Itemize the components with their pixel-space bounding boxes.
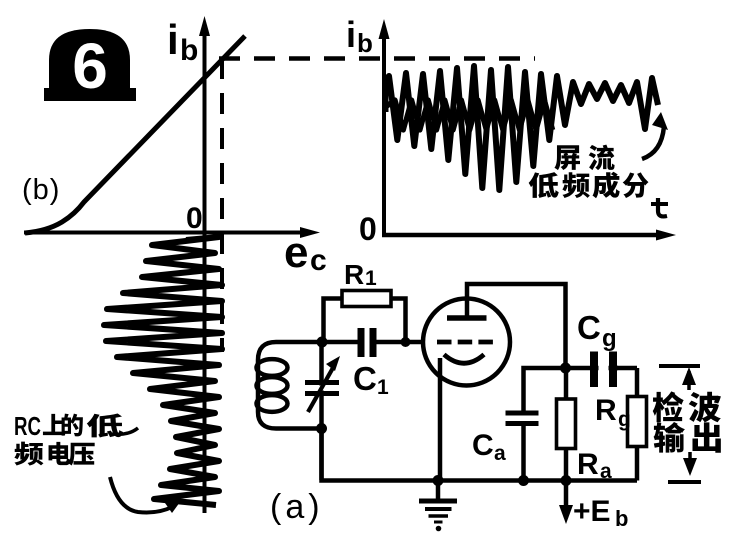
capacitor C1 plates: [361, 326, 373, 360]
svg-text:+E: +E: [573, 495, 611, 528]
label i_b (plot b): [167, 16, 198, 67]
svg-text:R: R: [344, 259, 364, 290]
svg-text:R: R: [577, 448, 599, 481]
resistor Rg: [628, 368, 647, 481]
node: Ca bottom dot: [518, 475, 529, 486]
output annotation 检波输出: [659, 366, 700, 390]
label e_c: [284, 228, 327, 277]
label i_b (time plot): [346, 14, 373, 58]
label +Eb: [573, 495, 628, 531]
node: grid junction dot: [401, 337, 411, 347]
svg-text:g: g: [618, 408, 631, 431]
label (a): [270, 488, 324, 526]
svg-text:b: b: [615, 506, 628, 531]
label 0 (time plot): [359, 211, 377, 247]
variable capacitor plates: [303, 356, 341, 412]
node: Ra bottom dot: [561, 475, 572, 486]
label (b): [22, 174, 60, 206]
node: cathode/ground dot: [433, 475, 444, 486]
tube cathode: [444, 355, 484, 364]
svg-text:b: b: [180, 34, 198, 67]
plot (b) vertical axis i_b: [199, 16, 210, 513]
node: tank top junction dot: [317, 337, 328, 348]
plot time-domain vertical axis i_b: [379, 19, 390, 237]
tube grid (dashed): [437, 340, 495, 345]
svg-text:C: C: [353, 360, 377, 397]
label Ca: [472, 429, 506, 465]
label 0 (plot b): [186, 202, 203, 235]
label Rg: [595, 394, 631, 431]
svg-text:C: C: [577, 309, 601, 346]
svg-text:e: e: [284, 228, 308, 277]
svg-text:1: 1: [365, 267, 377, 290]
wire: cathode down to ground rail: [438, 358, 443, 480]
svg-text:b: b: [357, 28, 373, 58]
resistor Ra: [557, 368, 576, 481]
svg-text:0: 0: [186, 202, 203, 235]
tube characteristic curve: [25, 36, 245, 233]
resistor R1 branch wires: [324, 299, 406, 343]
label C1: [353, 360, 389, 399]
wire: grid row from tank to tube: [321, 340, 437, 345]
svg-text:6: 6: [72, 30, 108, 102]
svg-text:(a): (a): [270, 488, 324, 526]
label R1: [344, 259, 377, 290]
label 屏流低频成分: [529, 145, 649, 199]
curved arrow to waveform: [110, 477, 180, 513]
plate current waveform: [386, 66, 659, 190]
node: tank bottom junction dot: [316, 423, 327, 434]
node: anode junction dot: [560, 363, 571, 374]
svg-text:i: i: [346, 14, 356, 55]
svg-text:g: g: [602, 325, 617, 352]
svg-text:0: 0: [359, 211, 377, 247]
+Eb supply arrow: [559, 481, 573, 524]
svg-text:a: a: [494, 442, 506, 465]
label Cg: [577, 309, 617, 352]
wire: anode node row: [524, 368, 619, 413]
wire: tank vertical: [319, 342, 324, 480]
dashed peak level horizontal line: [219, 56, 535, 61]
capacitor Ca: [506, 413, 539, 481]
svg-text:1: 1: [377, 376, 389, 399]
output annotation bottom arrow and bar: [668, 452, 701, 482]
capacitor Cg: [594, 349, 637, 389]
inductor L coil: [257, 342, 323, 429]
label 检波输出 text: [653, 391, 721, 452]
plot (b) horizontal axis e_c: [24, 227, 320, 238]
plot time-domain horizontal axis t: [382, 230, 676, 241]
svg-text:(b): (b): [22, 174, 60, 206]
ground symbol: [419, 480, 457, 531]
wire: plate to top rail: [467, 284, 566, 368]
svg-text:C: C: [472, 429, 494, 462]
vacuum tube V1 envelope: [423, 299, 510, 386]
curved arrow to plate waveform: [642, 112, 668, 159]
tube plate: [447, 300, 487, 318]
label Ra: [577, 448, 612, 483]
grid voltage AM waveform on e_c axis: [104, 237, 222, 505]
svg-text:i: i: [167, 16, 179, 63]
label RC上的低频电压: [14, 411, 138, 466]
figure number badge 6: [44, 29, 136, 102]
resistor R1: [342, 291, 391, 307]
wire: bottom ground rail: [322, 430, 638, 481]
svg-text:R: R: [595, 394, 617, 427]
dashed operating-point vertical line: [220, 58, 224, 352]
label t: [651, 198, 668, 216]
svg-text:c: c: [310, 244, 327, 277]
svg-text:RC: RC: [14, 411, 41, 441]
